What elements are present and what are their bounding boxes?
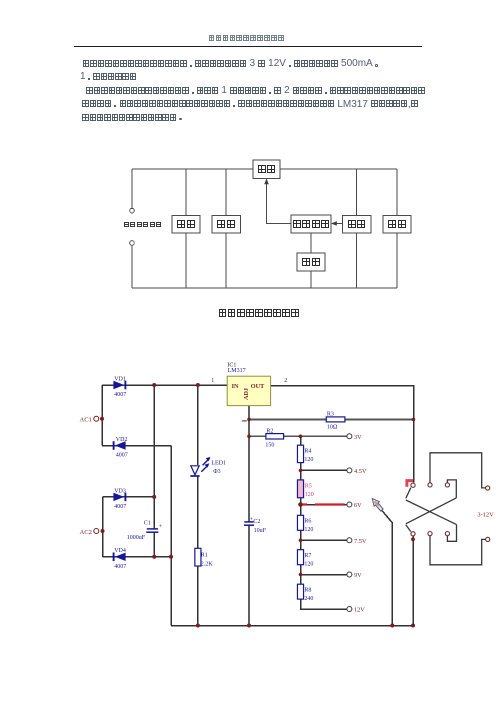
switch contact right-bottom [486,537,490,541]
wire VD2 row [102,445,171,447]
svg-text:C2: C2 [253,519,260,525]
svg-text:LED1: LED1 [211,461,226,467]
junction R2 / divider top [299,435,303,439]
svg-text:4007: 4007 [116,453,128,459]
switch contact top-1 [411,483,415,487]
capacitor C2 10uF [244,516,267,534]
wire left rail upper [131,169,133,208]
label IC1 [227,363,236,369]
resistor R3 10ohm [326,411,345,430]
svg-text:6V: 6V [354,502,362,509]
switch contact bottom-1 [411,532,415,536]
junction VD4 negative [169,555,173,559]
wire rectify branch [185,169,187,288]
svg-text:Φ3: Φ3 [213,469,220,475]
junction 7.5V tap [299,539,303,543]
switch contact bottom-3 [445,532,449,536]
wire 6V tap [301,504,347,506]
arrowhead into adjuster [264,179,269,185]
svg-text:C1: C1 [144,521,151,527]
diode VD2 1N4007 [114,437,128,459]
svg-text:7.5V: 7.5V [354,538,367,545]
svg-text:120: 120 [304,562,313,568]
wire comparator to adjuster [267,180,292,224]
node 12V output tap [347,607,365,614]
wire 7.5V tap [301,539,347,541]
red selection mark at switch input [407,481,413,487]
switch contact top-2 [428,483,432,487]
junction LED branch [196,383,200,387]
header rule [74,46,422,47]
switch contact bottom-2 [428,532,432,536]
wire sample to comparator [332,223,343,225]
svg-text:4.5V: 4.5V [354,468,367,475]
svg-text:1: 1 [211,378,214,384]
label 整流 (rectify) [177,220,196,228]
svg-text:120: 120 [304,457,313,463]
wire top rail [132,168,397,170]
wire negative branch down [170,446,172,626]
switch pole3 top link [447,480,456,498]
junction switch / ground [411,624,415,628]
switch cross wire B [406,498,457,532]
wire bottom rail [132,287,397,289]
resistor R4 120 [297,445,313,463]
resistor R5 120 [297,480,313,498]
wire 6V red routing overlay [302,503,344,505]
diode VD1 1N4007 [113,376,126,398]
box 整流 rectifier [172,216,200,234]
junction R1 / ground [196,624,200,628]
svg-text:150: 150 [265,443,274,449]
label LM317 [228,368,246,374]
junction AC2 to rail [101,529,105,533]
resistor R7 120 [297,550,313,568]
node AC input terminal bottom [130,241,135,246]
wire LM317 OUT to switch [271,386,414,483]
svg-text:3-12V: 3-12V [477,511,494,518]
wire AC2 left vertical [102,497,104,557]
wire ground rail [171,625,413,627]
junction 6V tap [298,502,303,507]
terminal AC2 [80,529,99,536]
resistor R1 2.2K [195,548,213,567]
arrowhead into comparator [331,221,337,226]
resistor R8 240 [297,584,313,602]
wire load branch / right rail [396,169,398,288]
box 调整 adjuster [253,160,280,179]
svg-text:OUT: OUT [251,383,265,390]
svg-text:10uF: 10uF [254,528,267,534]
label 负载 (load) [388,220,407,228]
wire sample branch [356,169,358,288]
svg-text:120: 120 [304,527,313,533]
svg-text:1000uF: 1000uF [127,535,146,541]
resistor R6 120 [297,515,313,533]
switch contact right-top [486,486,490,490]
svg-text:ADJ: ADJ [243,388,250,400]
pin 1 [211,378,214,384]
svg-text:4007: 4007 [114,392,126,398]
node 7.5V output tap [347,538,367,545]
junction AC1 to rail [100,417,104,421]
svg-text:VD4: VD4 [114,548,126,554]
label 3-12V output [477,511,494,518]
svg-text:4007: 4007 [114,504,126,510]
wire reference link [310,233,312,288]
paragraph line 4 [82,100,418,110]
svg-text:12V: 12V [354,607,365,614]
LED LED1 [190,457,226,476]
node AC input terminal top [130,208,135,213]
svg-text:LM317: LM317 [228,368,246,374]
pin 3 stub [242,420,247,422]
wire diagonal to ground [373,499,393,625]
op-amp regulator U1 LM317 body [227,376,270,405]
junction 4.5V tap [299,469,303,473]
paragraph line 1 [82,59,380,69]
junction C1 bottom [152,555,156,559]
wire R2 row to 3V tap [249,435,346,437]
junction 9V tap [299,573,303,577]
box 比较放大 comparator [291,215,331,233]
wire positive rail down to C1 [153,385,155,557]
node 6V output tap [347,502,362,509]
svg-text:9V: 9V [354,572,362,579]
svg-text:AC1: AC1 [80,417,92,424]
paragraph line 2 : 1、电路工作原理 [80,72,137,82]
junction R3 / OUT drop [412,418,416,422]
wire LED branch [197,385,199,626]
svg-text:R8: R8 [304,587,311,593]
wire VD4 row [103,556,172,558]
label 滤波 (filter) [217,220,236,228]
label 采样 (sample) [347,220,366,228]
svg-text:VD3: VD3 [114,488,126,494]
box 负载 load [383,216,411,234]
switch contact top-3 [445,483,449,487]
switch pole3 bottom link [447,525,456,542]
svg-text:VD1: VD1 [114,376,126,382]
junction ADJ / R2 [247,435,251,439]
wire 4.5V tap [301,469,347,471]
svg-text:R5: R5 [305,484,312,490]
label 比较放大 (compare-amplify) [292,220,330,228]
junction C2 / ground [247,624,251,628]
wire switch bottom to ground [412,536,414,625]
svg-text:R2: R2 [266,428,273,434]
svg-text:4007: 4007 [114,564,126,570]
svg-text:+: + [159,523,163,530]
svg-text:10Ω: 10Ω [327,425,338,431]
terminal AC1 [80,416,99,423]
svg-text:120: 120 [305,492,314,498]
svg-text:R7: R7 [304,553,311,559]
wire left rail lower [131,245,133,288]
svg-text:3V: 3V [354,434,362,441]
junction VD3 cathode [152,495,156,499]
caption 稳压电源组成方框图 [218,309,300,317]
wire AC1 left vertical [101,385,103,446]
label 基准 (reference) [302,258,321,266]
resistor R2 150 [265,428,283,448]
mouse cursor [372,499,383,512]
svg-text:240: 240 [304,596,313,602]
label 调整 (adjust) [257,165,276,173]
junction ADJ / R3 [247,418,251,422]
wire divider chain [301,436,347,609]
wire VD1 row (input to LM317 IN) [102,384,227,386]
svg-text:VD2: VD2 [116,437,128,443]
svg-text:R6: R6 [304,519,311,525]
wire R3 row [249,418,414,420]
box 采样 sampler [343,216,372,234]
header title 直流可调稳压电源的制作 [208,35,285,41]
box 滤波 filter [212,216,241,234]
label 交流电源输入 (AC input) [123,222,162,227]
wire ADJ vertical gray [248,406,250,626]
diode VD3 1N4007 [113,488,126,510]
diode VD4 1N4007 [114,548,127,570]
wire filter branch [225,169,227,288]
switch cross wire A [406,488,457,525]
svg-text:R4: R4 [304,449,311,455]
svg-text:2: 2 [284,378,287,384]
capacitor C1 1000uF [127,521,163,542]
svg-text:AC2: AC2 [80,529,92,536]
switch bracket top [430,453,486,488]
svg-text:IN: IN [232,383,239,390]
wire 9V tap [301,574,347,576]
svg-text:2.2K: 2.2K [201,562,214,568]
junction below switch bottom contact [411,537,415,541]
node 9V output tap [347,572,362,579]
paragraph line 3 [86,86,425,96]
node 3V output tap [347,434,362,441]
switch bracket bottom [430,536,486,565]
junction VD1 cathode / + rail [152,383,156,387]
svg-text:R3: R3 [327,411,334,417]
node 4.5V output tap [347,468,367,475]
paragraph line 5 [82,113,184,123]
pin 2 [284,378,287,384]
wire VD3 row [103,496,155,498]
junction diagonal / ground [390,624,394,628]
box 基准 reference [297,253,325,271]
svg-text:R1: R1 [201,553,208,559]
